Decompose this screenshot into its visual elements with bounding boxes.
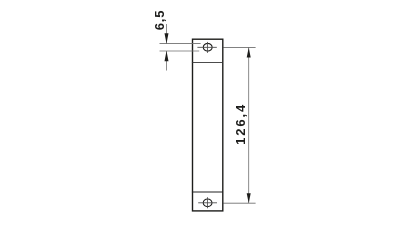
top hole (203, 43, 212, 51)
plate internal line above bottom hole (192, 191, 223, 193)
dim 6,5 extension line upper (160, 43, 201, 45)
dim 6,5 leader line lower segment (166, 51, 168, 71)
bottom hole center mark vertical (206, 197, 208, 208)
dim 126,4 arrowhead up (247, 47, 251, 57)
bottom hole (203, 199, 212, 207)
dim 6,5 arrowhead up (165, 51, 169, 61)
dim 6,5 leader line upper segment (166, 24, 168, 44)
top hole center mark vertical (206, 42, 208, 53)
top hole center mark horizontal (197, 46, 216, 48)
bottom hole center mark horizontal (198, 202, 217, 204)
dim 6,5 extension line lower (160, 50, 200, 52)
dim 126,4 arrowhead down (247, 193, 251, 203)
dim 6,5 arrowhead down (165, 33, 169, 43)
dim 126,4 extension line top (224, 46, 256, 48)
plate internal line below top hole (192, 61, 223, 63)
dim 126,4 extension line bottom (224, 202, 256, 204)
svg-text:6,5: 6,5 (152, 10, 167, 30)
plate outline (193, 39, 223, 211)
dim 126,4 dimension line (248, 47, 250, 203)
svg-text:126,4: 126,4 (233, 103, 248, 145)
